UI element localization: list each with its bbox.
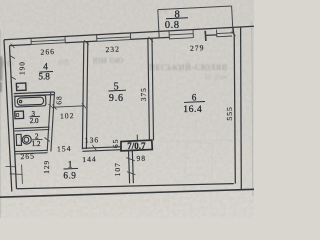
- svg-text:68: 68: [55, 95, 64, 104]
- hallway/room6 wall below box: [129, 150, 134, 183]
- corridor 102 dim line: [53, 103, 87, 109]
- window room6: [217, 30, 233, 37]
- labels: room numbers with fraction: [30, 10, 206, 181]
- svg-text:190: 190: [18, 61, 27, 75]
- svg-text:4: 4: [43, 62, 48, 72]
- svg-text:16.4: 16.4: [183, 104, 202, 115]
- top-right corner joint: [232, 27, 235, 34]
- faint bleed-through: [1, 8, 228, 81]
- svg-text:144: 144: [82, 154, 97, 164]
- svg-text:ВО: ВО: [1, 59, 14, 68]
- svg-text:5.8: 5.8: [38, 71, 50, 81]
- top wall inner line: [10, 45, 32, 46]
- bottom wall outer: [0, 189, 254, 197]
- svg-text:129: 129: [42, 160, 51, 174]
- svg-text:265: 265: [20, 151, 35, 161]
- svg-text:0.8: 0.8: [165, 20, 180, 31]
- right wall inner: [234, 34, 235, 184]
- faint page edge line left: [0, 30, 1, 218]
- svg-text:555: 555: [225, 106, 234, 120]
- svg-text:ІЧ: ІЧ: [160, 8, 168, 16]
- bath/toilet divider: [15, 127, 50, 131]
- svg-text:ИЙ: ИЙ: [58, 59, 69, 67]
- svg-text:1.2: 1.2: [32, 140, 41, 148]
- faint page edge line right: [252, 22, 253, 196]
- wall G2 rooms5/6: [148, 39, 154, 141]
- svg-text:9.6: 9.6: [109, 93, 124, 104]
- top wall outer line: [4, 26, 254, 40]
- svg-text:7/0.7: 7/0.7: [127, 141, 146, 151]
- svg-text:154: 154: [57, 144, 72, 154]
- wall G rooms4/5: [82, 42, 87, 150]
- toilet bottom wall: [15, 150, 48, 154]
- svg-text:8: 8: [175, 10, 180, 21]
- window room5: [97, 33, 131, 42]
- svg-text:98: 98: [136, 154, 146, 163]
- dimension texts: [18, 43, 235, 176]
- svg-text:232: 232: [105, 44, 120, 54]
- svg-text:65: 65: [111, 139, 120, 149]
- right wall outer: [240, 27, 243, 189]
- svg-text:1: 1: [68, 159, 73, 169]
- faint ghost bleed-through shapes in room 6: [160, 120, 232, 175]
- svg-text:2.0: 2.0: [30, 117, 39, 125]
- svg-text:6.9: 6.9: [63, 171, 76, 181]
- window room4: [31, 37, 65, 45]
- balcony door jamb: [204, 31, 207, 41]
- svg-text:ІЗ дом: ІЗ дом: [205, 73, 228, 81]
- sink box: [15, 111, 24, 119]
- svg-text:266: 266: [40, 47, 55, 57]
- room5 bottom wall: [82, 147, 121, 152]
- toilet: [16, 134, 31, 146]
- left edge smudge: [0, 56, 3, 81]
- left wall inner: [10, 46, 17, 189]
- balcony room 8: [158, 6, 233, 38]
- bath right wall: [47, 92, 54, 152]
- svg-text:ЮИ ОЮ: ЮИ ОЮ: [93, 56, 124, 65]
- room4 bottom wall (bath top): [14, 92, 55, 96]
- svg-text:102: 102: [60, 111, 75, 121]
- balcony window/door w3: [169, 30, 193, 39]
- svg-text:375: 375: [139, 87, 148, 101]
- bathtub: [15, 95, 46, 107]
- vent box: [16, 83, 26, 91]
- ticks: [6, 32, 236, 184]
- svg-text:ПЕСЬКИЙ-СЮЛЯВ: ПЕСЬКИЙ-СЮЛЯВ: [149, 63, 228, 72]
- svg-text:279: 279: [190, 43, 205, 53]
- svg-text:136: 136: [85, 135, 100, 145]
- left wall outer: [4, 40, 12, 192]
- svg-text:107: 107: [113, 162, 122, 176]
- room7 box: [121, 135, 152, 151]
- svg-text:6: 6: [192, 92, 197, 102]
- bottom wall inner: [17, 184, 234, 189]
- smudge bottom left corner of room4 area: [0, 82, 2, 92]
